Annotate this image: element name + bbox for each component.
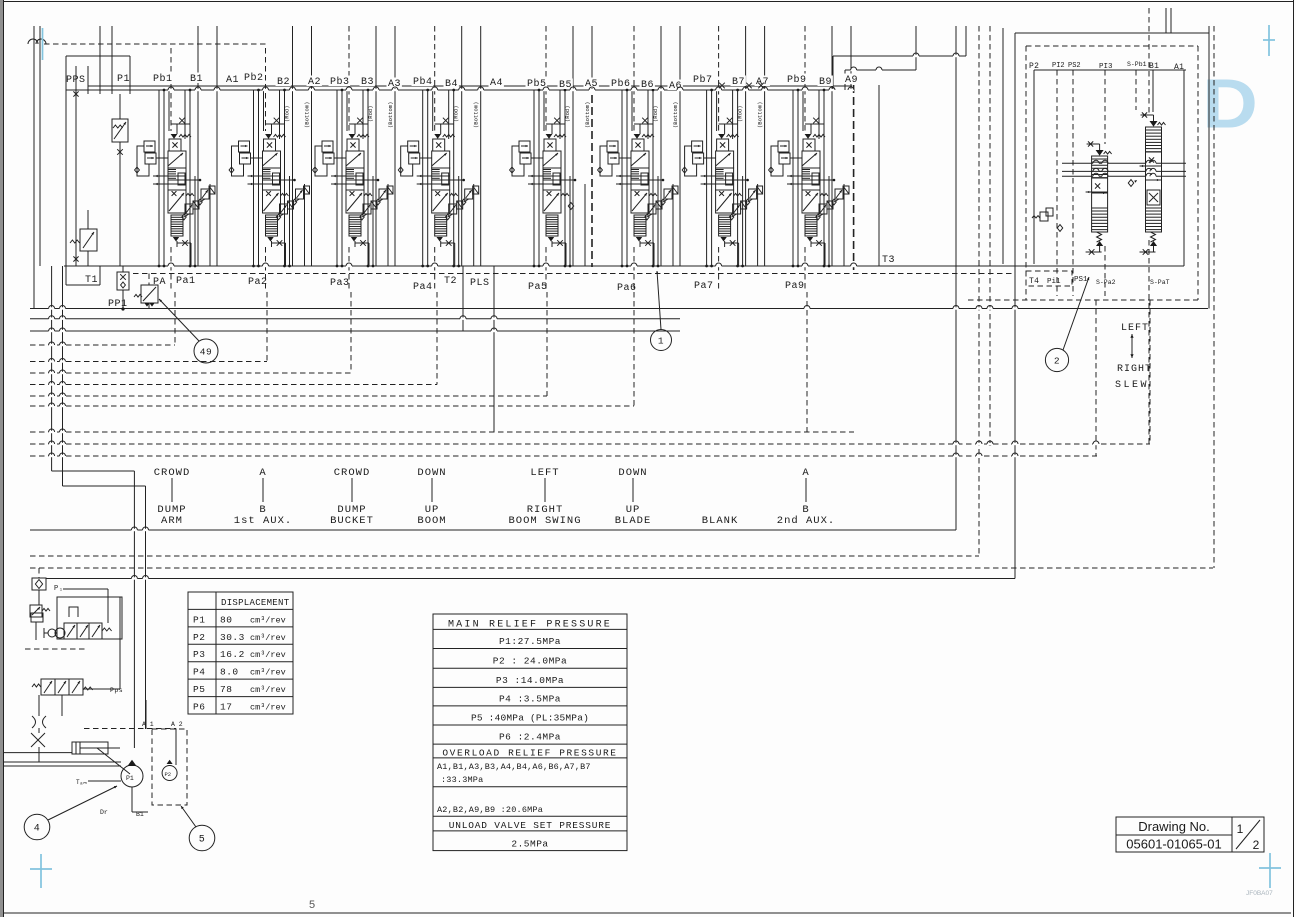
svg-text:PS1: PS1	[1074, 276, 1088, 284]
svg-text:Pb4: Pb4	[413, 76, 433, 88]
svg-text:B2: B2	[277, 77, 290, 88]
svg-text:1: 1	[658, 335, 664, 346]
svg-text:78: 78	[220, 684, 232, 695]
svg-text:(Bottom): (Bottom)	[304, 102, 311, 128]
svg-text:P1: P1	[126, 775, 134, 782]
svg-text:A 1: A 1	[142, 721, 154, 728]
svg-text:Pa4: Pa4	[413, 282, 433, 293]
svg-text:S-Pa2: S-Pa2	[1096, 279, 1116, 286]
svg-text:Dr: Dr	[100, 809, 108, 816]
svg-text:T2: T2	[444, 276, 457, 287]
svg-text:P6: P6	[193, 702, 205, 713]
svg-text:JF0BA07: JF0BA07	[1246, 890, 1273, 897]
svg-text:Pb6: Pb6	[611, 78, 631, 90]
svg-text:UNLOAD VALVE SET PRESSURE: UNLOAD VALVE SET PRESSURE	[449, 820, 612, 831]
svg-text:P6 :2.4MPa: P6 :2.4MPa	[499, 732, 561, 743]
svg-text:(Rod): (Rod)	[284, 105, 291, 122]
svg-text:(Rod): (Rod)	[564, 105, 571, 122]
svg-text:BLANK: BLANK	[702, 515, 739, 527]
svg-text:PA: PA	[153, 277, 166, 288]
svg-text:P1: P1	[117, 74, 130, 85]
svg-text:Pa3: Pa3	[330, 278, 350, 289]
svg-text:RIGHT: RIGHT	[1117, 364, 1152, 375]
svg-text:PP1: PP1	[108, 299, 128, 310]
svg-text:Pb1: Pb1	[153, 73, 173, 85]
svg-text:SLEW: SLEW	[1115, 380, 1149, 391]
svg-text:16.2: 16.2	[220, 649, 245, 660]
svg-text:A9: A9	[845, 75, 858, 86]
svg-text:LEFT: LEFT	[1121, 323, 1149, 334]
svg-text:P₁: P₁	[54, 585, 63, 593]
svg-text:B9: B9	[819, 77, 832, 88]
svg-text:P3 :14.0MPa: P3 :14.0MPa	[496, 675, 564, 686]
svg-text:P1:27.5MPa: P1:27.5MPa	[499, 636, 561, 647]
svg-text:Pa7: Pa7	[694, 281, 714, 292]
svg-text:P5 :40MPa (PL:35MPa): P5 :40MPa (PL:35MPa)	[471, 713, 589, 724]
svg-text:cm³/rev: cm³/rev	[250, 615, 286, 625]
svg-text:2nd AUX.: 2nd AUX.	[777, 515, 835, 527]
svg-text:Pa2: Pa2	[248, 277, 268, 288]
svg-text:cm³/rev: cm³/rev	[250, 668, 286, 678]
svg-text:A3: A3	[388, 79, 401, 90]
svg-text:P1: P1	[193, 614, 205, 625]
svg-text:CROWD: CROWD	[154, 467, 191, 479]
svg-text:T4: T4	[1029, 277, 1039, 286]
svg-text:(Rod): (Rod)	[652, 105, 659, 122]
svg-text:Pb3: Pb3	[330, 76, 350, 88]
svg-text:1: 1	[1237, 822, 1244, 836]
svg-text:DOWN: DOWN	[618, 467, 647, 479]
svg-text:cm³/rev: cm³/rev	[250, 633, 286, 643]
svg-text:PLS: PLS	[470, 278, 490, 289]
svg-text:B6: B6	[641, 80, 654, 91]
svg-text:Pps: Pps	[110, 687, 123, 694]
svg-text:1st AUX.: 1st AUX.	[234, 515, 292, 527]
svg-text:P2: P2	[165, 771, 172, 778]
svg-text:8.0: 8.0	[220, 667, 239, 678]
svg-text:Pa5: Pa5	[528, 282, 548, 293]
svg-text:(Bottom): (Bottom)	[584, 102, 591, 128]
svg-text:P4 :3.5MPa: P4 :3.5MPa	[499, 694, 561, 705]
svg-text:BUCKET: BUCKET	[330, 515, 374, 527]
svg-text:Drawing No.: Drawing No.	[1138, 819, 1210, 834]
svg-text:5: 5	[199, 835, 206, 846]
svg-text:P4: P4	[193, 667, 205, 678]
svg-text:Tₐₘ: Tₐₘ	[76, 779, 87, 786]
svg-text:BOOM SWING: BOOM SWING	[508, 515, 581, 527]
svg-text:P2 : 24.0MPa: P2 : 24.0MPa	[493, 656, 567, 667]
svg-text:cm³/rev: cm³/rev	[250, 685, 286, 695]
svg-text:PPS: PPS	[66, 75, 86, 86]
svg-text:Pb2: Pb2	[244, 72, 264, 84]
svg-text:Pi1: Pi1	[1047, 278, 1061, 286]
svg-text:A1: A1	[1174, 63, 1184, 72]
svg-text:Pb9: Pb9	[787, 74, 807, 86]
svg-text:(Rod): (Rod)	[367, 105, 374, 122]
svg-text:A1: A1	[226, 75, 239, 86]
svg-text:2: 2	[1054, 355, 1060, 366]
svg-text:B4: B4	[445, 79, 458, 90]
svg-text:(Bottom): (Bottom)	[757, 102, 764, 128]
svg-text:(Bottom): (Bottom)	[387, 102, 394, 128]
svg-text:CROWD: CROWD	[334, 467, 371, 479]
svg-text:PI2: PI2	[1052, 62, 1065, 70]
svg-text:17: 17	[220, 702, 232, 713]
svg-text:Pa1: Pa1	[176, 276, 196, 287]
svg-text:P2: P2	[193, 632, 205, 643]
svg-text:Pa9: Pa9	[785, 281, 805, 292]
svg-text:(Rod): (Rod)	[737, 105, 744, 122]
svg-text:cm³/rev: cm³/rev	[250, 650, 286, 660]
svg-text:T3: T3	[882, 255, 895, 266]
svg-text:MAIN RELIEF PRESSURE: MAIN RELIEF PRESSURE	[448, 620, 612, 631]
svg-text:A5: A5	[585, 79, 598, 90]
svg-text:PS2: PS2	[1068, 62, 1081, 70]
svg-text:DOWN: DOWN	[417, 467, 446, 479]
svg-text:(Rod): (Rod)	[453, 105, 460, 122]
svg-text:49: 49	[200, 346, 212, 357]
svg-text:A: A	[802, 467, 809, 479]
svg-text:A4: A4	[490, 78, 503, 89]
svg-text:A2,B2,A9,B9 :20.6MPa: A2,B2,A9,B9 :20.6MPa	[437, 805, 543, 815]
svg-text:A 2: A 2	[171, 721, 183, 728]
svg-text:(Bottom): (Bottom)	[672, 102, 679, 128]
svg-text:P5: P5	[193, 684, 205, 695]
svg-text:BOOM: BOOM	[417, 515, 446, 527]
svg-text:5: 5	[309, 899, 315, 911]
svg-text:4: 4	[34, 824, 41, 835]
svg-text:S-PaT: S-PaT	[1150, 279, 1170, 286]
svg-text:cm³/rev: cm³/rev	[250, 703, 286, 713]
svg-text:05601-01065-01: 05601-01065-01	[1126, 837, 1221, 852]
svg-text:OVERLOAD RELIEF PRESSURE: OVERLOAD RELIEF PRESSURE	[442, 748, 617, 759]
svg-text:B7: B7	[732, 77, 745, 88]
svg-text:ARM: ARM	[161, 515, 183, 527]
svg-text:P3: P3	[193, 649, 205, 660]
svg-text:A1,B1,A3,B3,A4,B4,A6,B6,A7,B7: A1,B1,A3,B3,A4,B4,A6,B6,A7,B7	[437, 762, 591, 772]
svg-text:A: A	[259, 467, 266, 479]
svg-text:DISPLACEMENT: DISPLACEMENT	[221, 598, 290, 608]
svg-text:2.5MPa: 2.5MPa	[511, 839, 548, 850]
svg-text::33.3MPa: :33.3MPa	[441, 775, 483, 785]
svg-text:80: 80	[220, 614, 232, 625]
svg-text:BLADE: BLADE	[615, 515, 652, 527]
svg-text:LEFT: LEFT	[530, 467, 559, 479]
svg-text:T1: T1	[85, 275, 98, 286]
svg-text:A2: A2	[308, 77, 321, 88]
svg-text:B1: B1	[190, 74, 203, 85]
svg-text:2: 2	[1253, 838, 1260, 852]
svg-text:30.3: 30.3	[220, 632, 245, 643]
svg-text:S-Pb1: S-Pb1	[1127, 61, 1147, 68]
svg-text:B3: B3	[361, 77, 374, 88]
svg-text:(Bottom): (Bottom)	[473, 102, 480, 128]
svg-text:Pb7: Pb7	[693, 74, 713, 86]
svg-text:D: D	[1202, 64, 1258, 143]
